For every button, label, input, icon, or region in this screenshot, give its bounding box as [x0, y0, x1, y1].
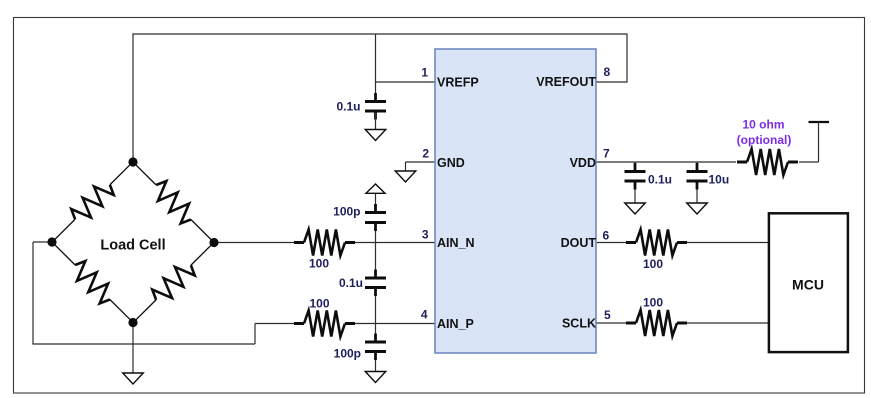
bridge resistor top-right — [126, 155, 221, 250]
node bridge right — [209, 238, 218, 247]
svg-text:0.1u: 0.1u — [648, 172, 672, 186]
wire R_AINN to pin 3 AIN_N — [355, 242, 436, 244]
wire pin1 node to C_vrefp — [375, 82, 377, 100]
wire chain: 100p to 0.1u (crosses AIN_N) — [375, 224, 377, 277]
wire left vertical down — [32, 242, 34, 344]
wire pin 7 VDD to R 10ohm — [596, 161, 736, 163]
svg-text:100: 100 — [309, 257, 329, 271]
svg-text:10 ohm: 10 ohm — [742, 118, 784, 132]
svg-text:100p: 100p — [333, 205, 360, 219]
resistor R_AINN 100 — [294, 241, 304, 244]
svg-text:100: 100 — [643, 257, 663, 271]
wire R 10ohm to supply corner — [799, 161, 819, 163]
svg-text:6: 6 — [603, 229, 610, 243]
capacitor chain 100p bottom — [374, 334, 377, 343]
resistor R_VDD 10 ohm — [737, 161, 747, 164]
MCU box — [769, 213, 848, 352]
svg-text:Load Cell: Load Cell — [100, 237, 165, 253]
resistor R_SCLK 100 — [626, 322, 636, 325]
wire C 10u to ground — [696, 183, 698, 203]
wire step up to AIN_P level — [254, 324, 256, 345]
capacitor C_vdd 0.1u — [634, 163, 637, 172]
wire bridge right node to R_AINN — [214, 242, 294, 244]
ground bridge bottom — [123, 373, 144, 384]
ground below cap chain — [365, 372, 386, 383]
bridge resistor bottom-left — [45, 235, 140, 330]
wire rail branch down to VREFP — [375, 34, 377, 82]
wire VDD to C 10u — [696, 162, 698, 170]
ground below C_vdd 10u — [687, 203, 708, 214]
svg-text:MCU: MCU — [792, 276, 824, 292]
reference arrow up at cap chain top — [366, 184, 385, 193]
svg-text:VREFP: VREFP — [437, 76, 479, 90]
svg-text:(optional): (optional) — [737, 133, 792, 147]
wire chain: 0.1u to 100p bottom (crosses AIN_P) — [375, 289, 377, 341]
svg-text:1: 1 — [421, 65, 428, 79]
svg-text:0.1u: 0.1u — [339, 276, 363, 290]
wire pin 2 GND — [406, 161, 436, 163]
wire VDD to C 0.1u — [634, 162, 636, 170]
svg-text:GND: GND — [437, 156, 465, 170]
ground below C_vrefp — [365, 130, 386, 141]
wire rail to bridge top node — [132, 33, 134, 162]
wire VREFOUT up to rail — [626, 33, 628, 82]
supply terminal bar — [809, 121, 830, 123]
svg-text:2: 2 — [422, 146, 429, 160]
ADC IC U1 box — [435, 49, 596, 353]
svg-text:SCLK: SCLK — [562, 317, 596, 331]
capacitor C_vrefp 0.1u — [374, 93, 377, 102]
ground below C_vdd 0.1u — [625, 203, 646, 214]
wire R SCLK to MCU — [687, 322, 768, 324]
wire R_AINP to pin 4 AIN_P — [355, 323, 436, 325]
wire pin 5 SCLK to R — [596, 322, 626, 324]
svg-text:VREFOUT: VREFOUT — [536, 75, 596, 89]
svg-text:0.1u: 0.1u — [336, 100, 360, 114]
wire R DOUT to MCU — [687, 242, 768, 244]
wire chain bottom to ground — [375, 354, 377, 372]
svg-text:DOUT: DOUT — [561, 236, 597, 250]
svg-text:AIN_N: AIN_N — [437, 236, 475, 250]
wire bridge left node out — [33, 241, 52, 243]
ground pin 2 GND — [395, 171, 416, 182]
resistor R_AINP 100 — [294, 322, 304, 325]
svg-text:VDD: VDD — [570, 156, 596, 170]
svg-text:8: 8 — [604, 65, 611, 79]
svg-text:100p: 100p — [334, 347, 361, 361]
wire to R_AINP — [255, 323, 294, 325]
capacitor C_vdd 10u — [696, 163, 699, 172]
wire to pin 1 VREFP — [376, 81, 436, 83]
wire C_vrefp to ground — [375, 113, 377, 130]
node bridge bottom — [128, 318, 137, 327]
bridge resistor right-bottom — [126, 235, 221, 330]
capacitor chain 0.1u middle — [374, 270, 377, 279]
wire pin 6 DOUT to R — [596, 242, 626, 244]
wire GND stub down — [405, 162, 407, 171]
svg-text:3: 3 — [422, 228, 429, 242]
wire bottom horizontal — [32, 343, 255, 345]
svg-text:7: 7 — [603, 146, 610, 160]
svg-text:5: 5 — [604, 308, 611, 322]
svg-text:4: 4 — [421, 308, 428, 322]
svg-text:AIN_P: AIN_P — [437, 317, 474, 331]
svg-text:10u: 10u — [709, 172, 730, 186]
bridge resistor left-top — [45, 155, 140, 250]
resistor R_DOUT 100 — [626, 241, 636, 244]
wire bridge bottom node to ground — [132, 323, 134, 374]
wire up to supply terminal — [818, 123, 820, 162]
svg-text:100: 100 — [643, 296, 663, 310]
svg-text:100: 100 — [309, 297, 329, 311]
wire top excitation rail — [133, 33, 627, 35]
wire C 0.1u to ground — [634, 183, 636, 203]
wire chain: arrow to C 100p top — [375, 193, 377, 211]
node bridge top — [128, 157, 137, 166]
node bridge left — [47, 237, 56, 246]
wire pin 8 VREFOUT — [596, 81, 627, 83]
capacitor chain 100p top — [374, 204, 377, 213]
